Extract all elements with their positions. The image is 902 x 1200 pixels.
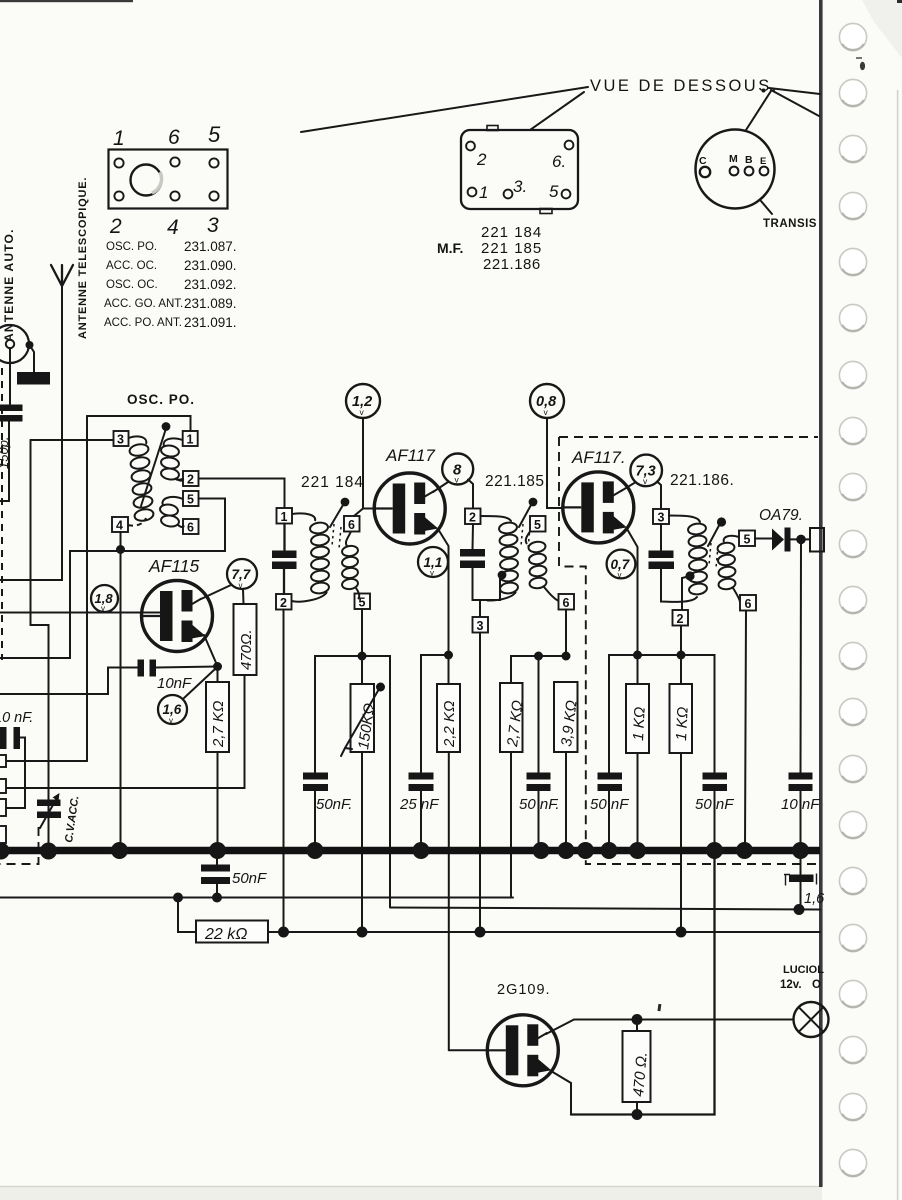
svg-text:LUCIOL: LUCIOL — [783, 964, 824, 976]
transistor AF115 — [142, 581, 213, 652]
IF3 primary winding — [687, 522, 707, 595]
IF2 terminal 5 — [530, 516, 546, 532]
voltage circle 0,7 — [607, 550, 636, 580]
svg-text:231.091.: 231.091. — [184, 315, 237, 330]
2G109 emitter wire — [551, 1071, 571, 1115]
AF117-2 emitter wire — [627, 528, 638, 655]
wire terminal 3 to IF3 primary top — [669, 516, 700, 523]
capacitor 50nF (stage5) — [703, 773, 728, 780]
pin 3 hole — [209, 191, 218, 200]
antenna coupling plate — [17, 372, 50, 385]
transistor case (bottom view) — [696, 130, 775, 209]
dashed module boundary (bottom left) — [0, 827, 39, 864]
junction terminal 4 / pickup line — [116, 545, 125, 554]
bus junction dots — [0, 843, 10, 860]
capacitor 50nF (stage1 decoupling) — [303, 773, 328, 780]
pin M — [730, 167, 739, 176]
terminal 6 of OSC.PO — [183, 519, 199, 534]
svg-text:C: C — [699, 155, 707, 167]
svg-text:1 KΩ: 1 KΩ — [673, 706, 692, 741]
IF2 primary winding — [487, 521, 519, 600]
pin 6 hole — [170, 157, 179, 166]
pin 1 hole — [114, 158, 123, 167]
capacitor 10nF (detector) — [789, 773, 813, 780]
voltage circle 1,8 — [91, 585, 118, 613]
terminal 5 of OSC.PO — [183, 491, 199, 506]
svg-text:3: 3 — [658, 511, 665, 525]
diode output junction — [796, 535, 806, 545]
apostrophe mark — [657, 1004, 661, 1011]
resistor 2,7K (AF115 emitter) — [217, 667, 219, 683]
wire IF2 cap bottom to tap — [473, 568, 501, 600]
emitter junction — [213, 662, 222, 671]
IF3 secondary winding — [717, 536, 740, 603]
battery cell 1,6V (cut by page edge) — [800, 854, 802, 874]
voltage circle 7,7 — [227, 559, 257, 590]
terminal box (left edge, row 3) — [0, 799, 6, 816]
AF117-1 emitter wire — [438, 529, 449, 655]
svg-text:231.087.: 231.087. — [184, 239, 237, 254]
svg-text:B: B — [745, 154, 753, 166]
wire 2,7K bottom to bus — [217, 752, 219, 848]
right neighbour page faint edge — [897, 90, 899, 1200]
terminal 1 of OSC.PO — [183, 431, 198, 446]
svg-text:5: 5 — [744, 533, 751, 547]
svg-text:OSC. PO.: OSC. PO. — [106, 241, 157, 253]
wire 7,3 to terminal 3 — [657, 482, 661, 510]
dashed output-stage module boundary — [559, 436, 818, 438]
dashed link winding to terminal 4 — [128, 518, 146, 526]
leader line to MF can — [530, 92, 584, 130]
svg-text:3: 3 — [477, 619, 484, 633]
node wire stage3 (2,7K / 50nF / 3,9K) — [511, 656, 566, 683]
svg-text:221.185.: 221.185. — [485, 473, 549, 490]
OSC.PO primary winding — [129, 436, 155, 522]
svg-text:v: v — [169, 716, 173, 725]
wire terminal 3 down to 22K line — [479, 633, 481, 933]
svg-text:50nF.: 50nF. — [316, 796, 352, 813]
MF pin 1 — [468, 188, 477, 197]
svg-text:231.090.: 231.090. — [184, 258, 237, 273]
terminal 3 of OSC.PO — [114, 431, 129, 446]
transistor AF117 (1st IF) — [374, 473, 445, 544]
IF2 terminal 6 — [559, 594, 575, 610]
IF1 terminal 2 — [276, 594, 292, 610]
IF2 secondary winding — [526, 532, 559, 602]
node wire stage4 (50nF / 1K / 1K / 50nF) — [609, 655, 715, 773]
AF115 emitter wire — [204, 635, 217, 665]
terminal box (left edge, row 2) — [0, 779, 6, 793]
svg-text:50 nF: 50 nF — [695, 796, 734, 813]
ink speck — [762, 89, 766, 93]
MF pin 3 — [504, 190, 513, 199]
svg-text:v: v — [430, 569, 434, 578]
svg-text:1 KΩ: 1 KΩ — [630, 706, 649, 741]
voltage circle 1,6 — [158, 695, 187, 725]
line from stage1 node to detector load — [390, 908, 820, 910]
svg-text:231.092.: 231.092. — [184, 277, 237, 292]
IF1 tuning capacitor — [283, 524, 285, 551]
svg-text:v: v — [618, 571, 622, 580]
svg-text:OSC. PO.: OSC. PO. — [127, 392, 195, 407]
svg-text:2G109.: 2G109. — [497, 982, 551, 998]
svg-text:ACC. GO. ANT.: ACC. GO. ANT. — [104, 298, 183, 310]
dashed fold line left edge — [1, 368, 3, 660]
OSC.PO lower secondary winding — [159, 497, 183, 528]
capacitor 10nF (AF115 emitter) — [138, 660, 145, 677]
svg-text:6: 6 — [168, 126, 180, 149]
IF1 secondary winding — [341, 532, 359, 600]
svg-text:2: 2 — [280, 596, 287, 610]
svg-text:10 nF.: 10 nF. — [0, 710, 33, 726]
svg-text:v: v — [239, 581, 243, 590]
car antenna socket — [0, 325, 29, 363]
svg-text:470Ω.: 470Ω. — [238, 629, 255, 670]
MF pin 5 — [562, 190, 571, 199]
svg-text:231.089.: 231.089. — [184, 296, 237, 311]
svg-text:221 184: 221 184 — [481, 224, 542, 241]
transistor 2G109 — [487, 1015, 558, 1086]
terminal 4 of OSC.PO — [112, 517, 128, 532]
svg-text:2,7 KΩ: 2,7 KΩ — [210, 701, 227, 748]
svg-text:1,6: 1,6 — [163, 702, 182, 717]
right page edge dark line — [819, 0, 823, 1187]
svg-text:v: v — [101, 604, 105, 613]
resistor 2,2K (AF117-1 emitter) — [448, 655, 450, 684]
svg-text:6: 6 — [187, 521, 194, 535]
wire diode output down to 10nF — [800, 544, 803, 773]
resistor 1K (first) — [637, 655, 639, 684]
svg-text:221 184: 221 184 — [301, 474, 364, 491]
svg-text:VUE DE DESSOUS.: VUE DE DESSOUS. — [590, 77, 779, 95]
lamp (dial light) — [794, 1002, 829, 1037]
svg-text:2: 2 — [469, 511, 476, 525]
IF3 terminal 3 — [653, 509, 669, 524]
top edge dark line — [0, 0, 133, 2]
wire IF2 terminal 6 down to node — [565, 610, 567, 656]
voltage circle 0,8 — [530, 384, 564, 418]
terminal 3 (AGC tap) — [479, 600, 481, 617]
resistor 1K (second) — [680, 655, 682, 684]
IF3 terminal 2 — [673, 610, 689, 626]
svg-text:221.186: 221.186 — [483, 256, 541, 273]
IF1 terminal 6 — [344, 516, 360, 532]
2G109 collector wire — [546, 1020, 794, 1035]
wire 2,7K bottom to line — [510, 752, 512, 898]
connector pinout box (bottom view) — [109, 150, 228, 209]
resistor 3,9K — [554, 682, 578, 752]
svg-text:2,2 KΩ: 2,2 KΩ — [441, 701, 458, 748]
leader line right (cut by page edge) — [769, 88, 820, 94]
IF2 tap junction — [498, 571, 507, 580]
junction terminal 2 (AF117 collector) — [465, 509, 481, 525]
leader line to pinout box — [301, 87, 588, 132]
voltage circle 1,2 — [346, 384, 380, 418]
IF3 terminal 5 — [739, 531, 755, 547]
leader emitter junction to 1,6 — [184, 670, 214, 698]
svg-text:22 kΩ: 22 kΩ — [204, 926, 247, 943]
svg-text:25 nF: 25 nF — [399, 796, 439, 813]
wire 150p bottom to left edge — [0, 422, 9, 502]
svg-text:5: 5 — [208, 122, 221, 147]
svg-text:M: M — [729, 153, 738, 165]
svg-text:ACC. PO. ANT.: ACC. PO. ANT. — [104, 317, 182, 329]
svg-text:3: 3 — [117, 433, 124, 447]
top-right scanner wedge — [862, 0, 902, 58]
M.F. transformer can (bottom view) — [461, 126, 578, 214]
capacitor 25nF — [409, 773, 434, 780]
wire terminal 5 to diode — [755, 538, 772, 540]
terminal box (left edge, row 4) — [0, 826, 6, 843]
AF117 collector wire to 8 — [433, 482, 448, 492]
AVC line (22K output) — [268, 931, 820, 933]
svg-text:50 nF: 50 nF — [590, 796, 629, 813]
output return wire — [571, 854, 715, 1115]
IF2 core adjust — [529, 498, 538, 507]
svg-text:6: 6 — [348, 518, 355, 532]
resistor 470 ohm (output) — [636, 1020, 638, 1032]
leader line lower right (cut by page edge) — [771, 90, 819, 116]
svg-text:5: 5 — [534, 518, 541, 532]
wire left vertical x30 down and across to x48 — [31, 440, 49, 846]
coil reference list — [104, 239, 237, 330]
2G109 base wire — [449, 1049, 487, 1051]
svg-text:4: 4 — [116, 519, 123, 533]
svg-text:6: 6 — [745, 597, 752, 611]
IF2 tuning capacitor — [472, 524, 475, 549]
wire terminal 2 to IF2 primary top — [481, 516, 512, 521]
svg-text:6: 6 — [563, 596, 570, 610]
AF115 base line from left edge — [0, 612, 160, 614]
voltage circle 8 — [442, 454, 473, 485]
svg-text:3.: 3. — [513, 177, 527, 196]
bottom scan edge strip — [0, 1187, 822, 1200]
wire 8 to junction terminal 2 — [468, 480, 473, 509]
wire telescopic antenna stem — [0, 286, 62, 580]
svg-text:221 185: 221 185 — [481, 240, 542, 257]
leader to TRANSIS label — [761, 201, 772, 214]
IF1 terminal 1 — [277, 508, 293, 524]
wire terminal 3 to left vertical — [31, 439, 114, 441]
wire 1K-2 bottom down to AVC line — [680, 753, 682, 932]
voltage circle 1,1 — [418, 547, 448, 578]
wire IF3 cap bottom to coil bottom — [661, 569, 697, 602]
pin 2 hole — [114, 191, 123, 200]
svg-text:10 nF: 10 nF — [781, 796, 820, 813]
trimmer C.V.ACC plates — [37, 800, 61, 807]
svg-text:AF115: AF115 — [148, 556, 200, 576]
wire tap to terminal 2 — [682, 576, 690, 610]
resistor 22K — [178, 898, 196, 933]
wire 1,2 down to AF117 base node — [362, 418, 364, 509]
svg-text:O: O — [812, 979, 821, 991]
wire terminal 2 down to node — [680, 626, 682, 656]
svg-text:3: 3 — [207, 214, 219, 237]
pin B — [745, 167, 754, 176]
capacitor 50nF (stage3) — [527, 773, 551, 780]
OSC.PO core adjust arrow — [141, 430, 166, 506]
wire 0,8 down to AF117-2 base — [547, 418, 563, 508]
svg-text:ANTENNE TELESCOPIQUE.: ANTENNE TELESCOPIQUE. — [77, 177, 89, 339]
MF pin 2 — [466, 142, 475, 151]
transistor AF117 (2nd IF) — [563, 472, 634, 543]
capacitor 10nF (left edge, cut) — [0, 727, 7, 749]
svg-text:2: 2 — [109, 215, 122, 238]
IF1 primary winding — [292, 513, 330, 601]
svg-text:AF117: AF117 — [385, 446, 435, 465]
svg-text:ACC. OC.: ACC. OC. — [106, 260, 157, 272]
svg-text:2: 2 — [677, 612, 684, 626]
svg-text:M.F.: M.F. — [437, 240, 463, 256]
wire 10nF left plate to left edge — [0, 668, 138, 695]
junction on antenna socket — [26, 341, 34, 349]
resistor 150K (variable, AGC) — [361, 656, 363, 684]
wire terminal 4 down — [120, 532, 122, 846]
svg-text:TRANSIS: TRANSIS — [763, 218, 817, 230]
wire base bias: left terminal to base line — [6, 760, 87, 762]
wire antenna socket to coupling plate — [30, 345, 35, 372]
svg-text:1: 1 — [113, 127, 125, 150]
svg-text:1: 1 — [281, 510, 288, 524]
svg-text:OSC. OC.: OSC. OC. — [106, 279, 158, 291]
pin 4 hole — [170, 191, 179, 200]
node wire AF117-1 emitter (25nF / 2,2K) — [421, 655, 449, 773]
AF115 collector wire to 7,7 — [201, 585, 231, 599]
svg-text:1: 1 — [187, 433, 194, 447]
terminal box (left edge, row 1) — [0, 755, 6, 767]
svg-text:1,6: 1,6 — [804, 891, 825, 907]
wire 10nF to terminal row 3 — [6, 738, 25, 809]
svg-text:12v.: 12v. — [780, 979, 802, 991]
svg-text:1: 1 — [479, 183, 488, 202]
wire IF1 terminal 5 down to node — [361, 609, 363, 656]
OSC.PO upper secondary winding — [160, 438, 183, 480]
terminal 2 of OSC.PO — [183, 471, 199, 486]
wire 470 bottom to left terminal — [6, 675, 245, 788]
ink speck near top hole — [860, 62, 865, 70]
wire terminal 5 loop to tuning line — [0, 499, 225, 659]
capacitor 50nF (stage4) — [598, 773, 623, 780]
IF3 tap junction — [685, 571, 694, 580]
wire IF3 terminal 6 down to bus — [745, 611, 746, 848]
svg-text:AF117.: AF117. — [571, 448, 626, 467]
svg-text:E: E — [760, 156, 766, 167]
svg-text:221.186.: 221.186. — [670, 472, 734, 489]
svg-text:2: 2 — [476, 150, 487, 169]
oscillator coil frame top — [87, 416, 191, 431]
IF3 terminal 6 — [740, 595, 756, 611]
ground bus (chassis rail) — [0, 847, 820, 855]
output terminal box (cut by page edge) — [810, 528, 824, 552]
leader line to transistor view — [746, 91, 771, 130]
svg-text:50nF: 50nF — [232, 870, 267, 887]
supply line to 2,7K and left edge — [0, 897, 513, 899]
pin 5 hole — [209, 158, 218, 167]
pin C — [700, 167, 710, 177]
MF pin 6 — [565, 141, 574, 150]
svg-text:2: 2 — [187, 473, 194, 487]
svg-text:10nF: 10nF — [157, 675, 192, 692]
svg-text:7,7: 7,7 — [232, 567, 252, 582]
capacitor 50nF (below bus) — [216, 854, 218, 865]
svg-text:OA79.: OA79. — [759, 507, 803, 524]
wire socket centre down to 150p capacitor — [9, 348, 11, 404]
wire terminal 2 to IF1 terminal 1 — [199, 479, 285, 509]
svg-text:5: 5 — [549, 182, 559, 201]
svg-text:50 nF.: 50 nF. — [519, 796, 560, 813]
wire AF117 base / IF1 terminal 6 — [354, 509, 375, 517]
pin E — [760, 167, 769, 176]
AF117-2 collector wire to 7,3 — [621, 482, 636, 491]
oscillator frame left rail — [86, 416, 88, 761]
svg-text:6.: 6. — [552, 152, 566, 171]
resistor 2,7K (2nd) — [500, 683, 523, 752]
wire 150K bottom to AVC line — [361, 752, 363, 932]
voltage circle 7,3 — [630, 455, 662, 487]
capacitor 150p (cut at edge) — [0, 405, 23, 412]
IF1 terminal 5 — [355, 594, 371, 610]
wire 10nF right plate to emitter junction — [156, 667, 218, 668]
svg-text:4: 4 — [167, 216, 179, 239]
IF3 core adjust — [717, 517, 726, 526]
telescopic antenna symbol — [51, 265, 73, 286]
svg-text:5: 5 — [187, 493, 194, 507]
node wire stage1 (IF1 sec / 150K / 50nF) — [315, 656, 390, 907]
IF3 tuning capacitor — [660, 524, 662, 550]
wire 2,2K bottom down to 2G109 base — [448, 752, 450, 1050]
diode OA79 — [772, 529, 784, 551]
IF1 core adjust — [341, 498, 350, 507]
wire IF1 terminal 2 down to 22K line — [283, 610, 285, 933]
resistor 470 ohm (AF115 collector load) — [234, 604, 257, 675]
wire 7,7 to resistor 470 — [242, 589, 245, 604]
trimmer arrow — [40, 796, 58, 828]
